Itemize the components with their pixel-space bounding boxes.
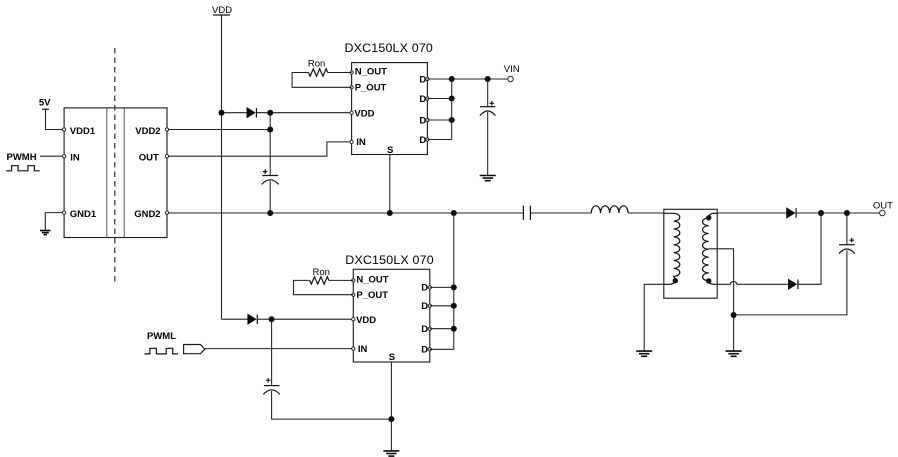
wire VDD branch to diode D1 <box>222 112 248 114</box>
wire Ron to U2 N_OUT <box>328 72 352 74</box>
U3 pin D1 <box>421 283 431 294</box>
U1 pin GND2 <box>134 209 168 220</box>
wire PWML tag to U3 IN <box>205 348 353 350</box>
U3 pin IN <box>352 344 368 355</box>
svg-text:PWMH: PWMH <box>7 152 37 163</box>
wire D1 cathode to U2 VDD pin <box>256 112 351 114</box>
junction C2 / VIN wire <box>485 76 491 82</box>
module U2 body <box>352 63 428 155</box>
wire GND2 bus <box>167 212 523 214</box>
wire T1 secondary top to D3 <box>717 212 787 214</box>
U3 pin S <box>389 352 395 363</box>
wire isolator OUT to U2 IN <box>167 142 352 156</box>
isolation barrier dashed line <box>114 48 116 283</box>
junction VDD2 / C1 branch <box>267 127 273 133</box>
diode D3 <box>787 208 796 218</box>
svg-text:VDD1: VDD1 <box>70 126 96 137</box>
junction U3 D-line 3 <box>451 326 457 332</box>
junction U3 S / C3 return <box>388 416 394 422</box>
capacitor C2 <box>480 101 496 116</box>
junction D-line top <box>449 76 455 82</box>
svg-text:D: D <box>419 135 426 146</box>
waveform symbol PWMH <box>6 166 40 171</box>
svg-text:OUT: OUT <box>139 152 159 163</box>
ground below U3 S <box>383 451 399 456</box>
svg-text:D: D <box>419 94 426 105</box>
capacitor C3 <box>263 378 279 394</box>
wire 5V to VDD1 <box>46 109 65 129</box>
T1 secondary top dot <box>706 215 711 220</box>
svg-text:DXC150LX 070: DXC150LX 070 <box>345 41 434 55</box>
junction C1 / GND2 bus <box>267 210 273 216</box>
diode D1 <box>247 108 256 118</box>
transformer T1 body <box>664 209 717 298</box>
wire Ron loop to U2 P_OUT <box>292 73 352 88</box>
U1 pin VDD2 <box>135 126 168 137</box>
svg-text:VDD: VDD <box>354 108 374 119</box>
ground below center tap <box>726 351 742 356</box>
T1 center tap wire <box>709 249 734 351</box>
svg-text:GND1: GND1 <box>70 209 97 220</box>
svg-text:VDD: VDD <box>212 5 232 16</box>
wire C3 vertical <box>272 319 392 419</box>
wire VDD2 from isolator to C1 node <box>167 129 270 131</box>
svg-text:S: S <box>387 145 393 156</box>
diode D2 <box>248 314 257 324</box>
svg-text:IN: IN <box>356 137 366 148</box>
U2 pin D3 <box>419 115 429 126</box>
ground below T1 primary <box>636 351 652 356</box>
junction D2 / C3 <box>269 316 275 322</box>
module U3 body <box>353 269 430 362</box>
junction U2 S / bus <box>387 210 393 216</box>
net label 5V <box>39 97 51 109</box>
resistor Ron lower <box>310 277 329 284</box>
U1 pin IN <box>62 152 79 163</box>
U2 pin IN <box>350 137 366 148</box>
wire C4 vertical and return <box>734 213 847 315</box>
svg-text:Ron: Ron <box>308 58 325 69</box>
wire C1 branch vertical <box>269 113 271 213</box>
capacitor C1 <box>262 169 279 184</box>
U3 pin D3 <box>421 324 431 335</box>
svg-text:P_OUT: P_OUT <box>355 82 387 93</box>
U1 pin VDD1 <box>62 126 95 137</box>
net label VDD <box>212 5 232 16</box>
junction C4 / OUT rail <box>844 210 850 216</box>
ground below C2 <box>480 176 496 181</box>
wire L1 to transformer T1 <box>628 212 664 214</box>
wire VDD rail vertical <box>221 15 223 319</box>
junction center tap / C4 return <box>731 312 737 318</box>
wire Ron lower loop to U3 P_OUT <box>294 280 354 294</box>
svg-text:PWML: PWML <box>147 331 176 342</box>
wire D2 cathode to U3 VDD <box>258 318 353 320</box>
wire U2 D pins to D-line and VIN <box>427 79 510 140</box>
diode D4 <box>789 280 798 290</box>
U1 pin OUT <box>139 152 169 163</box>
T1 secondary bottom dot <box>706 278 711 283</box>
svg-text:VDD: VDD <box>356 315 376 326</box>
svg-text:5V: 5V <box>39 97 51 108</box>
U1 pin GND1 <box>62 209 96 220</box>
wire C5 to L1 <box>530 212 591 214</box>
junction U3 D-line 2 <box>451 303 457 309</box>
terminal OUT <box>873 201 893 216</box>
input tag PWML <box>184 345 205 354</box>
wire PWMH to isolator IN <box>40 155 64 157</box>
svg-text:D: D <box>421 345 428 356</box>
wire Ron lower to U3 N_OUT <box>329 279 353 281</box>
U2 pin VDD <box>350 108 375 119</box>
U3 pin D4 <box>421 345 431 356</box>
svg-text:D: D <box>419 115 426 126</box>
U2 pin P_OUT <box>350 82 387 93</box>
U3 pin P_OUT <box>352 290 389 301</box>
T1 primary winding <box>664 213 680 284</box>
svg-text:GND2: GND2 <box>134 209 160 220</box>
U2 pin D2 <box>419 94 429 105</box>
ground GND1 <box>40 231 51 235</box>
svg-text:N_OUT: N_OUT <box>355 66 387 77</box>
U3 pin D2 <box>421 301 431 312</box>
resistor Ron upper <box>308 69 327 76</box>
wire T1 secondary bottom to D4 with hop <box>717 282 788 285</box>
digital isolator U1 body <box>64 108 167 238</box>
svg-text:VIN: VIN <box>504 64 520 75</box>
wire T1 primary to ground <box>644 284 664 351</box>
svg-text:D: D <box>421 324 428 335</box>
U2 pin S <box>387 145 393 156</box>
U2 pin D4 <box>419 135 429 146</box>
wire D4 cathode up to OUT rail <box>798 213 821 284</box>
wire VDD rail to diode D2 <box>222 318 248 320</box>
wire U3 D pins to D-line <box>430 213 454 349</box>
wire U2 S to bus <box>389 155 391 214</box>
svg-text:VDD2: VDD2 <box>135 126 160 137</box>
svg-text:IN: IN <box>358 344 368 355</box>
wire C2 vertical <box>487 79 489 176</box>
svg-text:P_OUT: P_OUT <box>356 290 388 301</box>
junction D-line 2 <box>449 96 455 102</box>
wire GND1 to ground <box>45 213 64 231</box>
wire D3 to OUT <box>796 212 882 214</box>
svg-text:S: S <box>389 352 395 363</box>
U2 pin D1 <box>419 74 429 85</box>
junction D-line 3 <box>449 117 455 123</box>
svg-text:D: D <box>421 283 428 294</box>
U2 pin N_OUT <box>350 66 387 77</box>
capacitor C5 series <box>523 206 530 221</box>
svg-text:DXC150LX 070: DXC150LX 070 <box>345 253 434 267</box>
junction VDD rail / D1 <box>219 110 225 116</box>
junction bottom D-line / bus <box>451 210 457 216</box>
waveform symbol PWML <box>144 348 178 354</box>
junction U3 D-line 1 <box>451 284 457 290</box>
junction D4 rail / OUT rail <box>818 210 824 216</box>
T1 secondary winding <box>703 213 718 284</box>
inductor L1 <box>591 206 628 213</box>
wire U3 S to ground <box>390 362 392 451</box>
junction D1 / C1 / U2 VDD <box>267 110 273 116</box>
terminal VIN <box>504 64 520 82</box>
capacitor C4 <box>839 238 855 254</box>
svg-text:N_OUT: N_OUT <box>356 274 388 285</box>
U3 pin VDD <box>352 315 377 326</box>
svg-text:D: D <box>421 301 428 312</box>
svg-text:D: D <box>419 74 426 85</box>
U3 pin N_OUT <box>352 274 389 285</box>
svg-text:IN: IN <box>70 152 80 163</box>
T1 primary dot <box>673 278 678 283</box>
